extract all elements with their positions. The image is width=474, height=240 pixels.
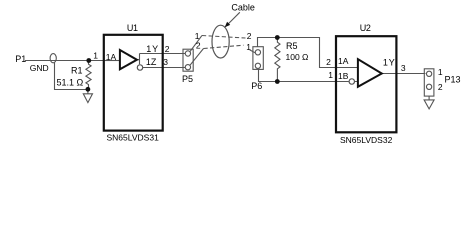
svg-text:1A: 1A xyxy=(106,52,117,62)
svg-text:2: 2 xyxy=(326,57,331,67)
svg-text:1Y: 1Y xyxy=(146,44,159,54)
svg-text:1: 1 xyxy=(246,42,251,52)
svg-text:R1: R1 xyxy=(71,66,83,76)
wire P5 pin2 diagonal xyxy=(190,49,204,66)
P13 pin 2 circle xyxy=(426,84,431,89)
P13 pin 1 circle xyxy=(426,71,431,76)
buffer triangle U1 xyxy=(120,50,137,69)
cable arrow line xyxy=(229,12,240,23)
svg-text:2: 2 xyxy=(165,44,170,54)
wire diagonal into P6 pin1 xyxy=(250,50,256,53)
junction dot R5 top xyxy=(275,35,280,40)
svg-text:1: 1 xyxy=(93,50,98,60)
connector P6 body xyxy=(253,47,263,70)
wire 1Z internal xyxy=(143,67,163,69)
svg-text:GND: GND xyxy=(30,63,49,73)
P6 pin 1 circle xyxy=(255,50,260,55)
inversion bubble U2 1B xyxy=(349,79,354,84)
svg-text:P13: P13 xyxy=(445,75,461,85)
ground (R1) xyxy=(83,90,92,103)
connector P13 body xyxy=(424,69,434,96)
wire U2 output to P13 xyxy=(382,73,426,75)
wire 1Z to P5 xyxy=(163,67,186,69)
P6 pin 2 circle xyxy=(255,63,260,68)
svg-text:SN65LVDS31: SN65LVDS31 xyxy=(107,133,160,143)
wire P1 to U1 pin 1 xyxy=(25,60,104,62)
wire U1 1A internal xyxy=(105,60,120,62)
svg-text:U1: U1 xyxy=(127,23,138,33)
svg-text:2: 2 xyxy=(196,41,201,51)
junction dot R5 bottom xyxy=(275,79,280,84)
svg-text:2: 2 xyxy=(438,82,443,92)
cable arrowhead xyxy=(225,22,231,28)
svg-text:1Y: 1Y xyxy=(383,57,396,67)
wire GND drop xyxy=(55,63,88,90)
connector P5 body xyxy=(183,49,193,71)
wire P5 pin1 diagonal xyxy=(190,35,202,51)
svg-text:1: 1 xyxy=(195,31,200,41)
wire U2 1A internal xyxy=(337,67,358,69)
svg-text:51.1 Ω: 51.1 Ω xyxy=(57,77,84,87)
svg-text:1A: 1A xyxy=(338,56,349,66)
svg-text:P6: P6 xyxy=(251,81,262,91)
buffer triangle U2 xyxy=(358,59,382,87)
junction dot node B (R1 bottom) xyxy=(86,87,91,92)
svg-text:U2: U2 xyxy=(360,23,371,33)
connector ellipse at P1 xyxy=(50,54,56,63)
svg-text:1: 1 xyxy=(438,67,443,77)
IC U2 box xyxy=(336,36,396,132)
inversion bubble 1Z xyxy=(137,65,142,70)
P5 pin 2 circle xyxy=(185,65,190,70)
IC U1 box xyxy=(104,35,163,131)
wire 1Y internal branch xyxy=(137,54,163,65)
wire bottom rail P6 to U2 pin 1 xyxy=(259,69,337,81)
resistor R1 xyxy=(86,61,91,90)
svg-text:P5: P5 xyxy=(182,74,193,84)
svg-text:1: 1 xyxy=(328,70,333,80)
svg-text:2: 2 xyxy=(247,31,252,41)
wire 1Y to P5 xyxy=(163,53,186,55)
svg-text:1B: 1B xyxy=(338,71,349,81)
wire U2 1B internal xyxy=(337,81,358,83)
junction dot node A (R1 top) xyxy=(86,58,91,63)
wire top rail P6 to U2 pin 2 xyxy=(258,38,337,68)
svg-text:3: 3 xyxy=(163,57,168,67)
svg-text:SN65LVDS32: SN65LVDS32 xyxy=(340,135,393,145)
svg-text:100 Ω: 100 Ω xyxy=(286,52,309,62)
svg-text:R5: R5 xyxy=(286,41,298,51)
svg-text:P1: P1 xyxy=(15,54,26,64)
ground (P13) xyxy=(424,96,434,109)
svg-text:Cable: Cable xyxy=(231,3,255,13)
resistor R5 xyxy=(275,38,280,82)
cable twisted wire 2 dashed xyxy=(204,45,244,48)
cable twisted wire 1 dashed xyxy=(202,36,246,39)
svg-text:1Z: 1Z xyxy=(146,57,157,67)
P5 pin 1 circle xyxy=(185,51,190,56)
cable ellipse xyxy=(212,25,229,58)
svg-text:3: 3 xyxy=(401,63,406,73)
